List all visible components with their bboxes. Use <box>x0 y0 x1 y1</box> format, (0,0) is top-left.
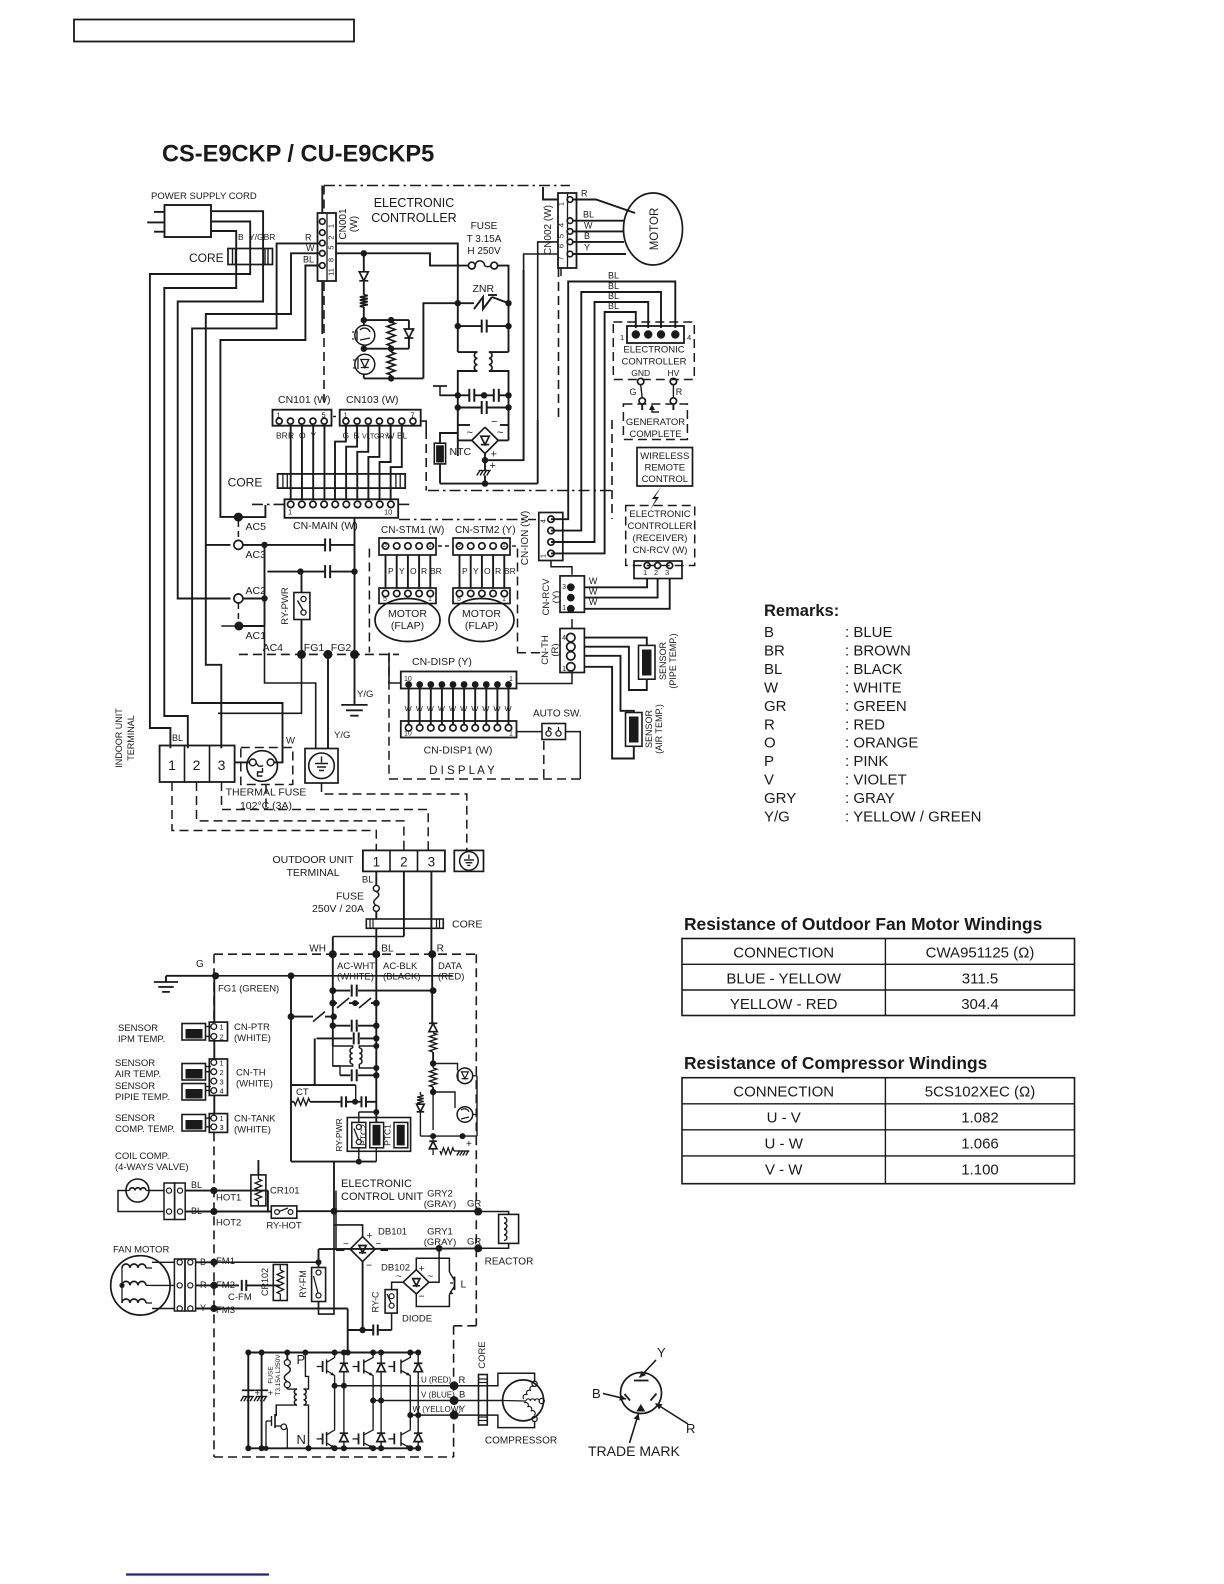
inverter transformer <box>276 1350 311 1452</box>
svg-text:P: P <box>388 566 394 576</box>
diode D1 <box>359 272 368 281</box>
svg-text:IPM TEMP.: IPM TEMP. <box>118 1034 165 1045</box>
relay RY-HOT <box>271 1206 297 1218</box>
svg-text:(W): (W) <box>349 216 360 232</box>
svg-text:CN-DISP (Y): CN-DISP (Y) <box>412 656 472 668</box>
wire inverter feed <box>345 1309 351 1356</box>
core 3 <box>366 919 443 928</box>
wire out t3 <box>430 871 432 954</box>
outdoor terminal numbers <box>373 855 436 870</box>
svg-text:FG1 (GREEN): FG1 (GREEN) <box>218 984 279 995</box>
ZNR label <box>473 283 495 295</box>
label L <box>461 1279 467 1291</box>
wire cap row2 indoor <box>267 565 357 598</box>
fuse inverter <box>284 1350 290 1390</box>
wire hot2 <box>185 1208 271 1215</box>
svg-text:W: W <box>505 704 513 713</box>
mid bus opto <box>364 346 409 352</box>
wire plug-top to Y/GBR <box>178 211 263 598</box>
label DIODE <box>402 1314 432 1325</box>
label BL3 <box>608 291 619 301</box>
dashed AC5-AC3 <box>237 521 239 540</box>
wire AC3 right <box>243 542 325 548</box>
svg-text:5: 5 <box>457 542 461 549</box>
CN-DISP1 nums <box>404 731 513 738</box>
label W YELLOW <box>413 1404 467 1415</box>
svg-text:U - W: U - W <box>765 1136 804 1153</box>
svg-text:~: ~ <box>428 1272 434 1283</box>
wire RY-PWR bottom <box>218 620 302 714</box>
CN-DISP wires <box>409 689 509 725</box>
connector CN-PTR label <box>234 1022 271 1044</box>
CN101 pin nums <box>277 411 326 420</box>
svg-text:D I S P L A Y: D I S P L A Y <box>429 765 495 777</box>
label FG1 <box>304 642 325 654</box>
svg-text:1.100: 1.100 <box>961 1162 999 1179</box>
CN-STM1 wire labels <box>388 566 442 576</box>
svg-text:~: ~ <box>376 1239 382 1250</box>
inverter cap rail 1 <box>245 1350 251 1452</box>
svg-text:CN002 (W): CN002 (W) <box>543 205 554 255</box>
svg-text:O: O <box>484 566 491 576</box>
transistor IGBT bottom 2 <box>353 1427 374 1451</box>
label B motor <box>584 231 590 241</box>
generator pin strip <box>627 326 684 343</box>
svg-text:WIRELESS: WIRELESS <box>640 451 689 462</box>
wire V row <box>373 1400 454 1402</box>
wire U to compressor <box>454 1373 534 1386</box>
label compressor <box>485 1436 557 1447</box>
wire data down <box>432 1092 434 1130</box>
connector CN-STM1 label <box>381 525 444 536</box>
CN-MAIN pins <box>288 501 395 507</box>
capacitor AC3 <box>325 538 354 551</box>
node cap row1 L <box>455 392 461 398</box>
inverter mosfet <box>263 1414 287 1451</box>
wire bridge bottom rail <box>440 420 538 484</box>
svg-text:COMP. TEMP.: COMP. TEMP. <box>115 1124 175 1135</box>
svg-text:U (RED): U (RED) <box>421 1376 452 1385</box>
CN103 wire labels <box>343 431 408 441</box>
CN001 pin numbers <box>327 224 336 276</box>
svg-text:CN-STM2 (Y): CN-STM2 (Y) <box>455 525 516 536</box>
connector CN101 <box>273 410 332 426</box>
svg-text:(GRAY): (GRAY) <box>424 1199 457 1210</box>
outdoor border bottom <box>214 1456 454 1458</box>
wire W row <box>410 1414 454 1416</box>
svg-text:BR: BR <box>276 431 288 441</box>
svg-text:1: 1 <box>643 568 647 577</box>
CN-STM2 wires <box>460 555 505 588</box>
zener ZD1 <box>404 320 413 349</box>
resistor CR102 <box>273 1265 287 1301</box>
FG dashed row <box>239 653 399 655</box>
v316 <box>291 1038 315 1085</box>
svg-text:4: 4 <box>557 223 566 227</box>
CN-STM1 pins <box>382 543 433 549</box>
svg-text:CN103 (W): CN103 (W) <box>346 394 399 406</box>
label RY-PWR outdoor <box>334 1118 344 1152</box>
relay RY-C <box>385 1290 397 1314</box>
wire tf right W <box>282 749 284 762</box>
wire CN-TH bottom <box>518 673 573 684</box>
svg-text:: WHITE: : WHITE <box>845 679 902 696</box>
svg-text:COMPLETE: COMPLETE <box>629 429 681 440</box>
CN001 label <box>338 208 360 240</box>
node FG1 <box>324 650 333 659</box>
generator complete text <box>626 417 685 440</box>
svg-text:11: 11 <box>327 268 336 276</box>
svg-text:FG2: FG2 <box>331 642 352 654</box>
svg-text:V - W: V - W <box>765 1162 803 1179</box>
svg-text:YELLOW - RED: YELLOW - RED <box>730 996 838 1013</box>
relay RY-PWR <box>294 593 310 620</box>
svg-text:R: R <box>459 1375 466 1386</box>
fuse label <box>467 221 502 257</box>
label Y/GBR <box>249 232 275 242</box>
EC dashed bottom2 <box>399 519 536 521</box>
svg-text:P: P <box>462 566 468 576</box>
svg-text:SENSOR: SENSOR <box>658 641 668 680</box>
label sensor air <box>115 1058 161 1080</box>
optocoupler PC2 <box>353 354 375 374</box>
row 1161 <box>291 1159 376 1165</box>
wire AC1 dn <box>221 626 315 749</box>
wire bl down to db101 <box>0 0 1 1</box>
table1 title <box>684 914 1042 934</box>
svg-text:311.5: 311.5 <box>962 970 998 987</box>
label BL pin <box>303 255 314 265</box>
node GR a <box>474 1208 482 1216</box>
capacitor ry-c <box>348 1325 392 1336</box>
lightning bolt <box>650 487 661 510</box>
fan motor body <box>111 1256 170 1315</box>
sensor pipie body <box>182 1084 211 1101</box>
svg-text:1: 1 <box>620 333 624 342</box>
core 1 <box>228 249 273 265</box>
wire RCV stub <box>571 619 573 628</box>
motor M1 label <box>649 208 661 251</box>
wire T1 right down <box>489 371 509 395</box>
svg-text:DATA: DATA <box>438 961 463 972</box>
wire db101 top <box>319 1211 363 1314</box>
wire db102 left <box>392 1282 404 1289</box>
svg-text:CR102: CR102 <box>260 1268 270 1296</box>
wire RCV2 <box>584 579 657 598</box>
connector CN103 label <box>346 394 399 406</box>
optocoupler PC1 <box>352 325 375 345</box>
rail DATA <box>431 954 434 1023</box>
receiver text <box>628 509 693 556</box>
earth terminal indoor <box>305 749 338 784</box>
wire NTC top <box>440 433 458 443</box>
svg-text:5: 5 <box>557 234 566 238</box>
wire BL1 <box>551 282 675 520</box>
label BL2 <box>608 281 619 291</box>
diode FWD top 3 <box>414 1350 422 1419</box>
fuse outdoor label <box>312 891 364 916</box>
wire AC5 up <box>238 505 265 517</box>
CN103 pin nums <box>344 411 415 420</box>
svg-text:: GRAY: : GRAY <box>845 790 895 807</box>
svg-text:3: 3 <box>218 757 226 773</box>
connector CN-DISP <box>401 672 517 689</box>
svg-text:AIR TEMP.: AIR TEMP. <box>115 1069 161 1080</box>
svg-text:AC1: AC1 <box>246 630 267 642</box>
svg-text:PTC1: PTC1 <box>383 1124 393 1146</box>
svg-text:2: 2 <box>193 757 201 773</box>
label Y motor <box>584 243 590 253</box>
outdoor terminal block <box>363 850 445 871</box>
core CORE label <box>189 251 224 265</box>
wire plug-mid to B <box>150 222 250 749</box>
svg-text:1: 1 <box>327 224 336 228</box>
G R labels <box>629 387 682 397</box>
diode FWD top 2 <box>377 1350 385 1404</box>
svg-text:ZNR: ZNR <box>473 283 495 295</box>
thermal fuse dashed box <box>241 748 293 785</box>
wire FG2 rail up <box>354 518 356 655</box>
node cap L <box>455 323 461 329</box>
label Y fm <box>200 1303 206 1313</box>
svg-text:PTC2: PTC2 <box>359 1124 369 1146</box>
svg-text:AC4: AC4 <box>263 642 284 654</box>
arrow TM <box>630 1414 640 1444</box>
svg-text:Y: Y <box>459 1404 466 1415</box>
arrow Y <box>640 1360 657 1378</box>
wire ry-c down <box>391 1313 393 1330</box>
svg-text:BR: BR <box>764 642 785 659</box>
svg-text:RY-HOT: RY-HOT <box>266 1221 302 1232</box>
CN-RCV Y pins <box>567 583 575 612</box>
table2 <box>682 1078 1075 1184</box>
motor M1 <box>624 193 683 265</box>
CN-DISP W labels <box>405 704 513 713</box>
svg-text:CN-STM1 (W): CN-STM1 (W) <box>381 525 444 536</box>
CN-DISP1 label <box>424 745 493 757</box>
generator pins <box>632 330 680 338</box>
label GR a <box>467 1199 481 1210</box>
rail AC-BLK <box>375 954 377 1122</box>
bottom rule <box>126 1573 269 1575</box>
label RY-C <box>370 1291 380 1313</box>
svg-text:COIL COMP.: COIL COMP. <box>115 1151 169 1162</box>
svg-text:(FLAP): (FLAP) <box>465 620 498 632</box>
svg-text:4: 4 <box>687 333 691 342</box>
label GR b <box>467 1237 481 1248</box>
svg-text:W: W <box>306 243 315 253</box>
svg-text:POWER SUPPLY CORD: POWER SUPPLY CORD <box>151 191 257 202</box>
svg-text:SENSOR: SENSOR <box>115 1081 155 1092</box>
label sensor comp <box>115 1113 175 1135</box>
wire CN001 top <box>321 186 323 214</box>
label PTC2 <box>359 1124 369 1146</box>
coil connector <box>164 1183 185 1220</box>
svg-text:(WHITE): (WHITE) <box>337 972 374 983</box>
svg-text:R: R <box>676 387 683 397</box>
bridge marks <box>467 416 504 461</box>
svg-text:1: 1 <box>502 596 506 603</box>
svg-text:PIPIE TEMP.: PIPIE TEMP. <box>115 1092 170 1103</box>
inverter P rail <box>248 1352 418 1354</box>
NTC label <box>450 446 472 458</box>
dashed T1-out <box>172 782 376 850</box>
wire hot1 <box>185 1187 268 1212</box>
diode FWD top 1 <box>340 1350 348 1389</box>
svg-text:HOT2: HOT2 <box>216 1218 241 1229</box>
svg-text:(BLACK): (BLACK) <box>383 972 420 983</box>
dashed T3-out <box>222 782 429 850</box>
label BL hot2 <box>191 1206 202 1216</box>
EC dashed top <box>324 185 570 187</box>
svg-text:ELECTRONIC: ELECTRONIC <box>374 196 455 210</box>
PTC2 <box>370 1122 384 1147</box>
diode FWD bottom 1 <box>340 1386 348 1452</box>
svg-text:BL: BL <box>608 291 619 301</box>
CN-TH R pins <box>567 633 575 671</box>
resistor CR101 <box>251 1175 266 1206</box>
wire igbt2 e <box>370 1401 376 1452</box>
svg-text:V (BLUE): V (BLUE) <box>421 1391 455 1400</box>
svg-text:7: 7 <box>557 256 566 260</box>
svg-text:V: V <box>764 772 774 789</box>
CN-STM1 wires <box>386 555 431 588</box>
outdoor border top <box>214 953 476 955</box>
wire bridge right <box>498 425 508 440</box>
svg-text:Remarks:: Remarks: <box>764 602 839 620</box>
plug prongs <box>147 212 164 232</box>
svg-text:Resistance of Compressor Windi: Resistance of Compressor Windings <box>684 1053 987 1073</box>
svg-text:−: − <box>419 1291 425 1303</box>
svg-text:4: 4 <box>541 519 548 523</box>
label Y/G gnd <box>357 689 373 700</box>
label C-FM <box>228 1292 252 1303</box>
label YG earth <box>334 730 350 741</box>
wireless remote text <box>640 451 689 485</box>
wire data opto1 <box>433 1064 457 1071</box>
auto sw label <box>533 709 582 720</box>
remarks entries <box>764 624 981 826</box>
svg-text:5: 5 <box>457 596 461 603</box>
data row 1136 <box>420 1092 477 1139</box>
wire CR101 <box>257 1160 259 1212</box>
svg-text:W: W <box>286 736 295 747</box>
wire R1-node <box>361 307 367 323</box>
svg-text:BL: BL <box>608 271 619 281</box>
svg-text:HOT1: HOT1 <box>216 1193 241 1204</box>
cap row2 <box>455 395 512 414</box>
svg-text:AC5: AC5 <box>246 521 267 533</box>
svg-text:U - V: U - V <box>767 1110 801 1127</box>
capacitor E2 <box>254 1388 274 1401</box>
wire ptc bottom <box>359 1148 377 1162</box>
wire PC1-node <box>361 320 367 352</box>
svg-text:Y: Y <box>657 1345 666 1360</box>
generator EC text <box>622 345 687 368</box>
svg-text:BL: BL <box>303 255 314 265</box>
svg-text:: VIOLET: : VIOLET <box>845 772 907 789</box>
svg-text:3: 3 <box>665 568 669 577</box>
svg-text:Y/GBR: Y/GBR <box>249 232 275 242</box>
svg-text:R: R <box>581 189 588 199</box>
svg-text:R: R <box>764 716 775 733</box>
label R tm <box>686 1421 695 1436</box>
svg-text:5: 5 <box>383 596 387 603</box>
svg-text:CN-RCV (W): CN-RCV (W) <box>633 545 688 556</box>
connector CN101 label <box>278 394 331 406</box>
svg-text:BR: BR <box>430 566 442 576</box>
wire U row <box>335 1385 455 1387</box>
svg-text:R: R <box>495 566 501 576</box>
svg-text:1: 1 <box>220 1059 224 1068</box>
relay RY-FM <box>312 1268 326 1302</box>
svg-text:(RED): (RED) <box>438 972 464 983</box>
svg-text:: BLACK: : BLACK <box>845 661 903 678</box>
svg-text:ELECTRONIC: ELECTRONIC <box>629 509 690 520</box>
svg-text:(PIPE TEMP.): (PIPE TEMP.) <box>668 633 678 688</box>
wire NTC bottom <box>439 464 441 484</box>
data opto1 <box>457 1068 473 1084</box>
svg-text:: YELLOW / GREEN: : YELLOW / GREEN <box>845 809 981 826</box>
label BL motor <box>583 210 594 220</box>
wire WH jog <box>333 928 404 954</box>
wire cap row1 <box>440 394 509 396</box>
wire igbt3 c <box>407 1350 413 1419</box>
vert 291 <box>290 976 292 1162</box>
CN-STM1 nums <box>383 542 432 549</box>
svg-text:1: 1 <box>220 1114 224 1123</box>
auto sw box <box>542 724 566 740</box>
CN-TH R nums <box>562 635 566 673</box>
label W pin <box>306 243 315 253</box>
svg-text:250V / 20A: 250V / 20A <box>312 903 364 915</box>
coil 4way <box>126 1179 149 1202</box>
label HOT1 <box>216 1193 241 1204</box>
svg-text:Y: Y <box>473 566 479 576</box>
svg-text:7: 7 <box>411 411 415 420</box>
label FM1 <box>216 1256 235 1267</box>
transistor IGBT bottom 1 <box>317 1427 335 1451</box>
wire CN001 W ext <box>206 545 222 748</box>
svg-text:W: W <box>438 704 446 713</box>
dash STM1-STM2 <box>438 545 451 547</box>
wire air sensor a <box>584 656 633 713</box>
label CT <box>296 1087 309 1098</box>
svg-text:CWA951125 (Ω): CWA951125 (Ω) <box>926 945 1035 962</box>
label HOT2 <box>216 1218 241 1229</box>
svg-text:AUTO SW.: AUTO SW. <box>533 709 582 720</box>
svg-text:1: 1 <box>557 202 566 206</box>
svg-text:1: 1 <box>288 508 292 517</box>
label DB102 <box>381 1263 410 1274</box>
wire db101 feed right <box>381 1240 553 1250</box>
nodes UVW <box>450 1381 459 1419</box>
label AC-WHT <box>337 961 375 983</box>
svg-text:FM1: FM1 <box>216 1256 235 1267</box>
wire out t2 <box>403 871 405 936</box>
svg-text:Resistance of Outdoor Fan Moto: Resistance of Outdoor Fan Motor Windings <box>684 914 1042 934</box>
wire V to compressor <box>454 1400 503 1402</box>
connector CN-STM1 <box>379 538 436 555</box>
label WH <box>309 944 326 955</box>
svg-text:L: L <box>461 1279 467 1291</box>
outdoor border left <box>213 954 215 1457</box>
wires fanmotor <box>152 1262 174 1308</box>
svg-text:1.082: 1.082 <box>961 1110 999 1127</box>
node AC3 <box>234 540 266 561</box>
svg-text:DB101: DB101 <box>378 1227 407 1238</box>
svg-text:W: W <box>449 704 457 713</box>
